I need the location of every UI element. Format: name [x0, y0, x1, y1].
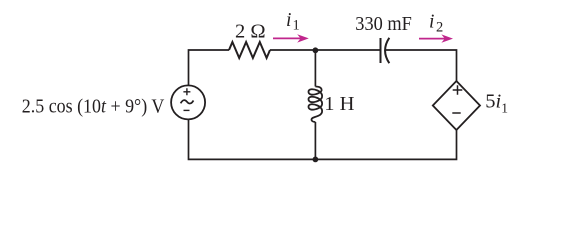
minus sign inside source circle	[184, 109, 190, 111]
dependent source U1 diamond	[433, 81, 480, 130]
svg-text:2 Ω: 2 Ω	[235, 21, 266, 43]
node bottom junction dot	[313, 157, 319, 163]
wire resistor to capacitor left plate (through top node)	[270, 49, 381, 51]
inductor L 1H coils	[309, 87, 323, 123]
wire diamond bottom to bottom-right corner to bottom node	[315, 130, 456, 159]
svg-text:2: 2	[436, 20, 443, 36]
current arrow i1	[273, 37, 303, 39]
current arrow i2	[419, 38, 447, 40]
svg-text:1: 1	[293, 18, 300, 34]
capacitor C 330mF left plate	[380, 38, 382, 63]
minus sign inside diamond	[452, 112, 460, 114]
svg-text:1 H: 1 H	[324, 93, 354, 115]
node top junction dot	[313, 47, 319, 53]
svg-text:i: i	[286, 10, 291, 31]
wire top node down to inductor top	[314, 50, 316, 87]
resistor 2ohm zigzag	[229, 42, 270, 58]
svg-text:5i1: 5i1	[485, 91, 508, 116]
wire bottom node to bottom-left corner up to source bottom	[189, 119, 316, 159]
wire inductor bottom to bottom node	[314, 122, 316, 159]
plus sign inside diamond	[453, 85, 463, 95]
wire left branch: top of source up to top-left corner and right to resistor	[189, 50, 230, 86]
source V1 circle	[171, 85, 205, 119]
svg-text:2.5 cos (10t + 9°) V: 2.5 cos (10t + 9°) V	[22, 96, 165, 118]
sine tilde inside source circle	[181, 100, 194, 103]
wire capacitor to top-right corner down to diamond top	[385, 50, 456, 81]
svg-text:i: i	[429, 12, 434, 33]
capacitor C 330mF right curved plate	[385, 38, 389, 63]
svg-text:330 mF: 330 mF	[355, 13, 412, 35]
plus sign inside source circle	[183, 88, 190, 95]
